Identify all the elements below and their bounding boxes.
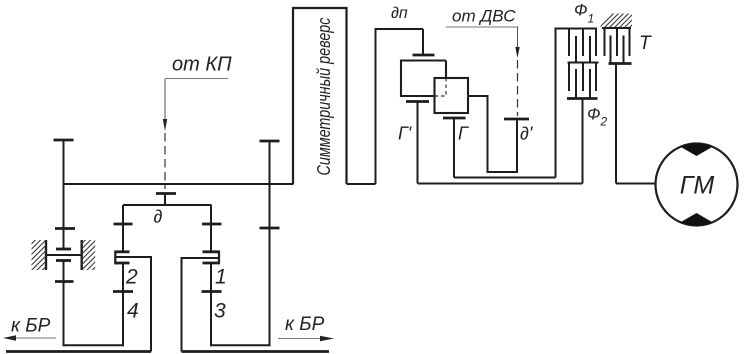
gear tick gear-1 shaft upper (202, 223, 222, 226)
clutch of gear 1 (two bars + connector) (203, 251, 220, 265)
hydro unit box Г-prime (U1) (401, 61, 446, 97)
brake Т inner plates (teeth up) (611, 36, 624, 64)
wire: turbine shaft down (615, 64, 617, 184)
dashed input centerline (от КП) (164, 133, 166, 189)
thick output line bottom-left (to БР) (6, 350, 151, 353)
bearing block left (hatched) (30, 222, 48, 282)
svg-text:∂: ∂ (154, 207, 163, 227)
wire: Г-prime shaft down (417, 102, 419, 184)
svg-text:Т: Т (639, 33, 652, 54)
gear tick left shaft lower (55, 280, 74, 283)
dashed engine centerline (517, 60, 519, 116)
wire: middle U (Г to drum left edge) (454, 177, 556, 179)
bearing cross line (46, 254, 82, 256)
coupling bar below Г-prime (406, 100, 429, 103)
svg-text:3: 3 (214, 300, 226, 323)
wire: clutch drum left edge vertical (555, 28, 557, 178)
clutch Ф2 inner plates (teeth up) (576, 69, 590, 99)
drum of gears 1/3: top edge and left edge (182, 258, 220, 352)
wire: Г shaft down (453, 118, 455, 178)
clutch Ф1 top line (555, 28, 598, 30)
svg-text:от ДВС: от ДВС (452, 7, 516, 26)
wire: дп top horizontal (375, 28, 424, 30)
clutch Ф1 inner plates (teeth up) (576, 36, 590, 63)
svg-text:ГМ: ГМ (680, 172, 715, 200)
wire: outer U (Г-prime to Ф2 shaft) (418, 183, 583, 185)
wire: bottom link left shaft to gear-2 shaft (64, 344, 124, 346)
gear tick left shaft upper (55, 227, 75, 230)
clutch middle carrier line (568, 62, 599, 64)
wire: gear-1 shaft vertical (210, 205, 212, 346)
svg-text:к БР: к БР (285, 314, 325, 335)
gear д tick on centerline (156, 192, 176, 195)
svg-text:к БР: к БР (11, 316, 51, 337)
svg-text:Г': Г' (398, 124, 412, 144)
svg-text:∂': ∂' (520, 124, 533, 144)
coupling bar дп (413, 54, 435, 57)
coupling bar д-prime (504, 118, 529, 121)
svg-text:2: 2 (125, 266, 138, 289)
brake Т carrier bar (609, 62, 632, 65)
frame hatching above brake Т (599, 13, 654, 28)
svg-text:Г: Г (458, 124, 469, 144)
wire: input bracket horizontal (123, 204, 212, 206)
svg-text:1: 1 (215, 266, 227, 289)
gear tick right shaft (260, 227, 280, 230)
svg-text:Симметричный реверс: Симметричный реверс (314, 18, 334, 176)
clutch Ф1 outer plates (teeth down) (569, 29, 596, 57)
bearing block right (hatched) (80, 222, 98, 282)
gear tick gear-1 shaft lower (202, 290, 222, 293)
wire: bottom link gear-1 shaft to right shaft (211, 344, 270, 346)
ГМ top wedge (681, 144, 713, 156)
clutch Ф2 outer plates (teeth down) (569, 63, 596, 92)
gear end bar on left shaft top (54, 139, 74, 142)
svg-text:4: 4 (127, 300, 139, 323)
brake Т outer plates (teeth down) (605, 28, 630, 56)
wire: right idler shaft vertical (269, 141, 271, 346)
wire: дп drop to coupling (422, 29, 424, 54)
wire: left output shaft vertical (63, 140, 65, 346)
gear tick gear-2 shaft lower (113, 290, 133, 293)
leader line от ДВС with arrow (446, 27, 520, 58)
hydro machine ГМ circle (656, 144, 738, 226)
coupling on left shaft (two half bars) (56, 249, 71, 261)
wire: Г box to engine link (468, 96, 517, 172)
wire: дп riser vertical (375, 29, 377, 184)
svg-text:от КП: от КП (172, 54, 232, 76)
arrow to БР left (3, 335, 56, 340)
wire: reverser to дп riser (347, 183, 376, 185)
coupling bar below Г (443, 117, 466, 120)
hydro unit box Г (U2) (435, 78, 469, 113)
wire: main horizontal shaft (64, 183, 294, 185)
wire: Ф2 shaft down (582, 99, 584, 184)
clutch of gear 2 (two bars + connector) (115, 251, 130, 265)
ГМ bottom wedge (681, 213, 713, 225)
wire: gear-2 shaft vertical (122, 205, 124, 346)
thick output line bottom-right (to БР) (182, 350, 330, 353)
box: Симметричный реверс (293, 8, 347, 184)
wire: link to ГМ (616, 183, 656, 185)
drum of gears 2/4: top edge and right edge (115, 257, 151, 352)
clutch Ф2 bottom bar (567, 97, 598, 100)
stub from д tick to bracket (164, 194, 166, 207)
gear end bar right shaft top (260, 140, 280, 143)
leader line от КП with arrow (163, 79, 228, 132)
gear tick gear-2 shaft upper (114, 223, 133, 226)
arrow to БР right (278, 336, 334, 341)
brake Т top line (fixed to frame) (602, 27, 631, 29)
svg-text:∂п: ∂п (391, 5, 408, 22)
